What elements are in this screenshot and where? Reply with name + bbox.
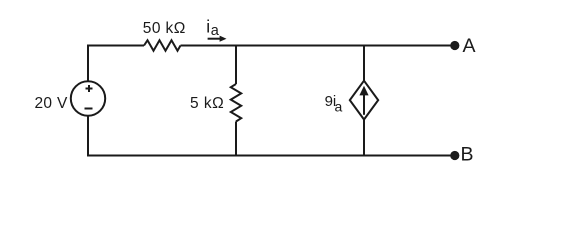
wire left upper [87, 45, 89, 82]
svg-text:B: B [461, 143, 474, 165]
svg-text:A: A [463, 35, 476, 57]
current arrow i_a [208, 38, 221, 40]
wire middle lower [235, 122, 237, 157]
svg-text:50 kΩ: 50 kΩ [143, 20, 186, 37]
svg-text:5 kΩ: 5 kΩ [190, 95, 224, 112]
svg-text:i: i [206, 16, 210, 36]
wire bottom [88, 155, 452, 157]
svg-text:20 V: 20 V [35, 95, 68, 112]
svg-text:a: a [335, 99, 343, 115]
voltage source minus sign [85, 108, 93, 110]
voltage source plus sign [86, 85, 93, 92]
wire dependent-source upper [363, 45, 365, 82]
wire middle upper [235, 45, 237, 85]
wire top-left segment [88, 45, 144, 47]
dependent source arrow stem [363, 93, 365, 115]
dependent source arrowhead [359, 86, 368, 96]
wire top-right segment [181, 45, 453, 47]
wire left lower [87, 116, 89, 157]
resistor R1 zigzag [144, 40, 181, 50]
voltage source V1 circle [71, 81, 105, 115]
dependent current source diamond [350, 81, 378, 120]
node A terminal dot [450, 41, 459, 50]
wire dependent-source lower [363, 120, 365, 157]
resistor R2 zigzag 5 kΩ [231, 84, 241, 122]
svg-text:a: a [211, 23, 220, 39]
node B terminal dot [450, 151, 459, 160]
